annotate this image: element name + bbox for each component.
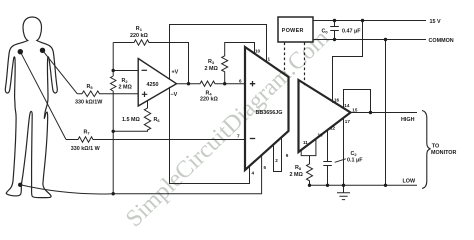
svg-text:COMMON: COMMON [429, 38, 454, 44]
svg-text:R1: R1 [136, 26, 143, 32]
svg-text:LOW: LOW [403, 179, 416, 185]
svg-text:330 kΩ/1 W: 330 kΩ/1 W [71, 146, 101, 152]
svg-text:R8: R8 [295, 165, 302, 171]
C2 pointer [335, 159, 346, 163]
wire: COMMON drop to LOW [385, 40, 387, 186]
svg-text:−V: −V [171, 92, 178, 98]
svg-text:2 MΩ: 2 MΩ [119, 85, 133, 91]
svg-text:C2: C2 [351, 151, 358, 157]
svg-text:10: 10 [255, 49, 261, 54]
pins 2-9 link under U1 [274, 138, 282, 172]
svg-text:+V: +V [172, 70, 179, 76]
wire: pin 17 to LOW [343, 119, 345, 186]
svg-text:TO: TO [432, 143, 439, 149]
svg-text:C0: C0 [322, 28, 329, 34]
pins 11-13 link and resistor R8 2M [301, 139, 316, 185]
svg-text:BB3656JG: BB3656JG [256, 110, 283, 116]
dashed power feed 1 [284, 43, 286, 74]
svg-text:14: 14 [344, 103, 350, 108]
dashed power feed 2 [304, 43, 306, 87]
wire: chest electrode (left) to R7 [20, 52, 66, 140]
svg-text:POWER: POWER [282, 28, 304, 34]
node vertical x113 with resistor R2 [112, 43, 114, 194]
electrode leg [18, 183, 22, 187]
isolation amp U1 BB3656JG body [245, 47, 289, 170]
svg-text:4250: 4250 [147, 82, 159, 88]
HIGH output line [351, 112, 418, 114]
svg-text:0.1 μF: 0.1 μF [347, 158, 363, 164]
node C0 top [333, 19, 336, 22]
svg-text:15 V: 15 V [430, 19, 441, 25]
node COMMON on LOW [384, 184, 387, 187]
resistor R7 330k/1W [66, 137, 245, 142]
node bottom rail [112, 192, 115, 195]
svg-text:4: 4 [252, 171, 255, 176]
electrode right chest [40, 48, 45, 53]
svg-text:R2: R2 [122, 78, 129, 84]
node pin16 on 15V [361, 19, 364, 22]
brace to monitor [422, 111, 431, 189]
resistor R2 2M [111, 76, 116, 91]
node inverting input [112, 69, 115, 72]
node R8 on LOW [308, 184, 311, 187]
svg-text:13: 13 [318, 132, 324, 137]
COMMON rail [313, 39, 426, 41]
wire: output and resistor R4 220k [177, 81, 246, 86]
wire: bottom isolated rail to pin 5 [113, 156, 261, 194]
svg-text:2: 2 [275, 158, 278, 163]
svg-text:R3: R3 [208, 59, 215, 65]
capacitor C2 0.1uF [323, 131, 332, 186]
svg-text:2 MΩ: 2 MΩ [290, 172, 304, 178]
svg-text:11: 11 [303, 140, 308, 145]
body figure (patient outline) [5, 17, 57, 198]
svg-text:5: 5 [264, 165, 267, 170]
U1 minus sign [250, 138, 255, 140]
svg-text:1.5 MΩ: 1.5 MΩ [122, 117, 140, 123]
wire: +V to pin 1 [170, 25, 267, 79]
electrode left chest [18, 49, 23, 54]
U1 plus sign [250, 81, 255, 86]
resistor R1 220k feedback [113, 40, 188, 84]
svg-text:220 kΩ: 220 kΩ [130, 33, 148, 39]
node R4/R3 [223, 82, 226, 85]
ground [337, 185, 350, 199]
svg-text:220 kΩ: 220 kΩ [200, 96, 218, 102]
svg-text:16: 16 [334, 97, 340, 102]
POWER module box [278, 17, 313, 42]
node C2 on LOW [326, 184, 329, 187]
wire: leg electrode to bottom rail [20, 185, 113, 194]
svg-text:2 MΩ: 2 MΩ [205, 66, 219, 72]
wire: chest electrode (right) to R5 [43, 50, 78, 94]
U1 output stage triangle [299, 80, 351, 152]
node C0 bottom [333, 38, 336, 41]
wire: -V to pin 4 [170, 87, 250, 184]
node feedback on HIGH [369, 111, 372, 114]
node R2/R6 [112, 130, 115, 133]
op-amp minus sign [142, 69, 148, 71]
svg-text:7: 7 [237, 134, 240, 139]
wire: inverting input [113, 70, 138, 72]
op-amp plus sign [142, 92, 148, 98]
svg-text:1: 1 [268, 57, 271, 62]
svg-text:6: 6 [239, 79, 242, 84]
LOW output line [310, 184, 418, 186]
svg-text:MONITOR: MONITOR [431, 150, 456, 156]
svg-text:R6: R6 [154, 117, 161, 123]
svg-text:15: 15 [352, 107, 358, 112]
resistor R3 2M and wire to pin 10 [222, 43, 255, 84]
svg-text:12: 12 [330, 126, 336, 131]
svg-text:9: 9 [286, 153, 289, 158]
node COMMON drop [384, 38, 387, 41]
node op-amp output [187, 82, 190, 85]
svg-text:HIGH: HIGH [401, 117, 415, 123]
wire: pin 16 to 15V [333, 21, 363, 103]
node gnd on LOW [342, 184, 345, 187]
resistor R5 330k/1W [77, 91, 138, 97]
svg-text:17: 17 [345, 119, 351, 124]
resistor R6 1.5M [113, 100, 151, 131]
svg-text:R5: R5 [87, 84, 94, 90]
svg-text:0.47 μF: 0.47 μF [342, 28, 361, 34]
15V supply rail [313, 20, 426, 22]
capacitor C0 0.47uF [330, 21, 339, 40]
svg-text:330 kΩ/1W: 330 kΩ/1W [75, 99, 103, 105]
feedback wire pin 14 to output [344, 90, 371, 113]
svg-text:R7: R7 [84, 130, 91, 136]
op-amp U2 4250 [138, 59, 176, 107]
